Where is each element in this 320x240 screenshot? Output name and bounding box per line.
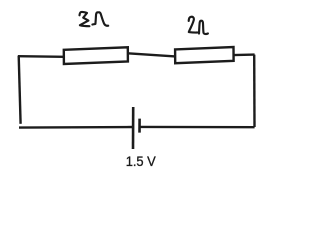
svg-text:1.5 V: 1.5 V <box>126 153 157 169</box>
